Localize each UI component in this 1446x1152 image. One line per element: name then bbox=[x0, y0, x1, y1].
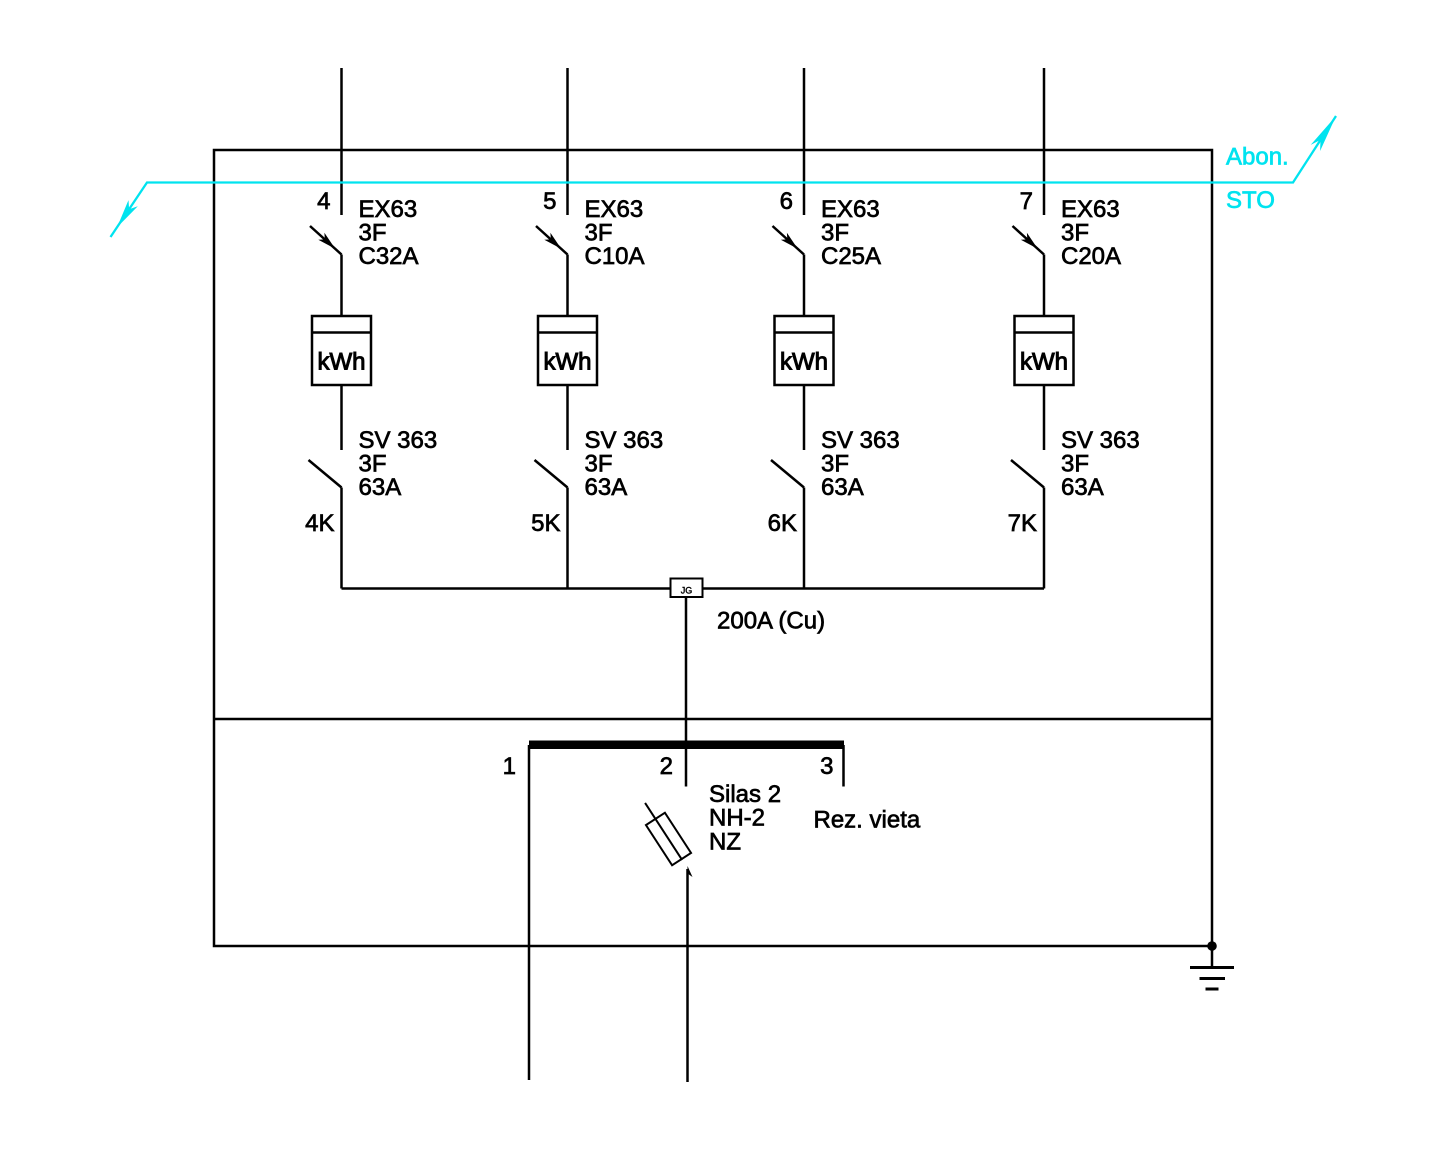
kWh meter P6 box bbox=[775, 316, 834, 385]
wire collector bus left bbox=[342, 587, 671, 590]
svg-text:4K: 4K bbox=[305, 510, 334, 537]
svg-text:6: 6 bbox=[780, 188, 793, 215]
circuit breaker Q6 EX63 blade bbox=[773, 226, 805, 255]
wire terminal 1 outgoing bbox=[528, 745, 531, 1080]
wire breaker 4 to meter bbox=[340, 255, 343, 317]
svg-text:63A: 63A bbox=[585, 474, 628, 501]
circuit breaker Q4 arrowhead bbox=[318, 233, 335, 249]
svg-text:STO: STO bbox=[1226, 187, 1275, 214]
wire feeder 6 incoming bbox=[803, 68, 806, 215]
wire switch 7 to bus bbox=[1043, 488, 1046, 589]
enclosure divider line bbox=[214, 718, 1212, 721]
wire meter 5 to switch bbox=[566, 385, 569, 450]
busbar 200A main (thick) bbox=[529, 741, 844, 750]
circuit breaker Q7 EX63 blade bbox=[1013, 226, 1045, 255]
wire JG box down to main busbar terminal 2 bbox=[685, 597, 688, 787]
wire breaker 6 to meter bbox=[803, 255, 806, 317]
svg-text:C10A: C10A bbox=[585, 243, 645, 270]
disconnect switch S7 blade bbox=[1011, 460, 1044, 488]
svg-text:kWh: kWh bbox=[780, 349, 828, 376]
circuit breaker Q5 arrowhead bbox=[544, 233, 561, 249]
circuit breaker Q6 arrowhead bbox=[781, 233, 798, 249]
svg-text:Rez. vieta: Rez. vieta bbox=[814, 807, 921, 834]
svg-text:kWh: kWh bbox=[318, 349, 366, 376]
svg-text:5K: 5K bbox=[531, 510, 560, 537]
junction node at enclosure corner bbox=[1207, 941, 1217, 951]
svg-text:JG: JG bbox=[681, 586, 693, 596]
kWh meter P5 terminal band bbox=[538, 331, 597, 334]
wire meter 4 to switch bbox=[340, 385, 343, 450]
svg-text:63A: 63A bbox=[821, 474, 864, 501]
wire switch 4 to bus bbox=[340, 488, 343, 589]
svg-text:kWh: kWh bbox=[544, 349, 592, 376]
kWh meter P7 box bbox=[1015, 316, 1074, 385]
svg-text:kWh: kWh bbox=[1020, 349, 1068, 376]
circuit breaker Q4 EX63 blade bbox=[310, 226, 342, 255]
disconnect switch S5 blade bbox=[535, 460, 568, 488]
svg-text:C20A: C20A bbox=[1061, 243, 1121, 270]
svg-text:NH-2: NH-2 bbox=[709, 805, 765, 832]
kWh meter P5 box bbox=[538, 316, 597, 385]
svg-text:2: 2 bbox=[660, 753, 673, 780]
svg-text:NZ: NZ bbox=[709, 829, 741, 856]
fuse-disconnector F1 NH-2 (tilted fuse body) bbox=[636, 797, 692, 866]
wire terminal 3 stub (reserve) bbox=[842, 745, 845, 787]
junction box JG on bus bbox=[671, 579, 703, 598]
svg-text:200A (Cu): 200A (Cu) bbox=[717, 608, 825, 635]
svg-text:6K: 6K bbox=[768, 510, 797, 537]
fuse F1 lower contact arrow bbox=[688, 866, 693, 877]
kWh meter P6 terminal band bbox=[775, 331, 834, 334]
svg-text:C32A: C32A bbox=[359, 243, 419, 270]
disconnect switch S6 blade bbox=[771, 460, 804, 488]
svg-text:3: 3 bbox=[820, 753, 833, 780]
wire feeder 5 incoming bbox=[566, 68, 569, 215]
kWh meter P4 terminal band bbox=[312, 331, 371, 334]
circuit breaker Q5 EX63 blade bbox=[536, 226, 568, 255]
cyan arrowhead left (down-left) bbox=[117, 200, 138, 227]
wire breaker 5 to meter bbox=[566, 255, 569, 317]
wire switch 6 to bus bbox=[803, 488, 806, 589]
svg-text:63A: 63A bbox=[359, 474, 402, 501]
kWh meter P4 box bbox=[312, 316, 371, 385]
wire feeder 4 incoming bbox=[340, 68, 343, 215]
svg-text:7K: 7K bbox=[1008, 510, 1037, 537]
svg-text:1: 1 bbox=[503, 753, 516, 780]
disconnect switch S4 blade bbox=[309, 460, 342, 488]
wire feeder 7 incoming bbox=[1043, 68, 1046, 215]
svg-text:C25A: C25A bbox=[821, 243, 881, 270]
circuit breaker Q7 arrowhead bbox=[1021, 233, 1038, 249]
svg-text:7: 7 bbox=[1020, 188, 1033, 215]
wire collector bus right bbox=[703, 587, 1045, 590]
svg-text:4: 4 bbox=[317, 188, 330, 215]
cyan arrowhead right (up-right) bbox=[1311, 116, 1336, 151]
wire meter 7 to switch bbox=[1043, 385, 1046, 450]
svg-text:Abon.: Abon. bbox=[1226, 144, 1289, 171]
kWh meter P7 terminal band bbox=[1015, 331, 1074, 334]
wire switch 5 to bus bbox=[566, 488, 569, 589]
net boundary line Abon./STO (cyan) bbox=[111, 116, 1337, 237]
wire breaker 7 to meter bbox=[1043, 255, 1046, 317]
svg-text:63A: 63A bbox=[1061, 474, 1104, 501]
svg-text:5: 5 bbox=[543, 188, 556, 215]
wire meter 6 to switch bbox=[803, 385, 806, 450]
ground (earth) symbol bbox=[1190, 968, 1234, 990]
enclosure outline (distribution board) bbox=[214, 150, 1212, 946]
ground wire stub bbox=[1211, 946, 1214, 968]
wire fuse output down (outgoing feeder) bbox=[686, 869, 689, 1082]
